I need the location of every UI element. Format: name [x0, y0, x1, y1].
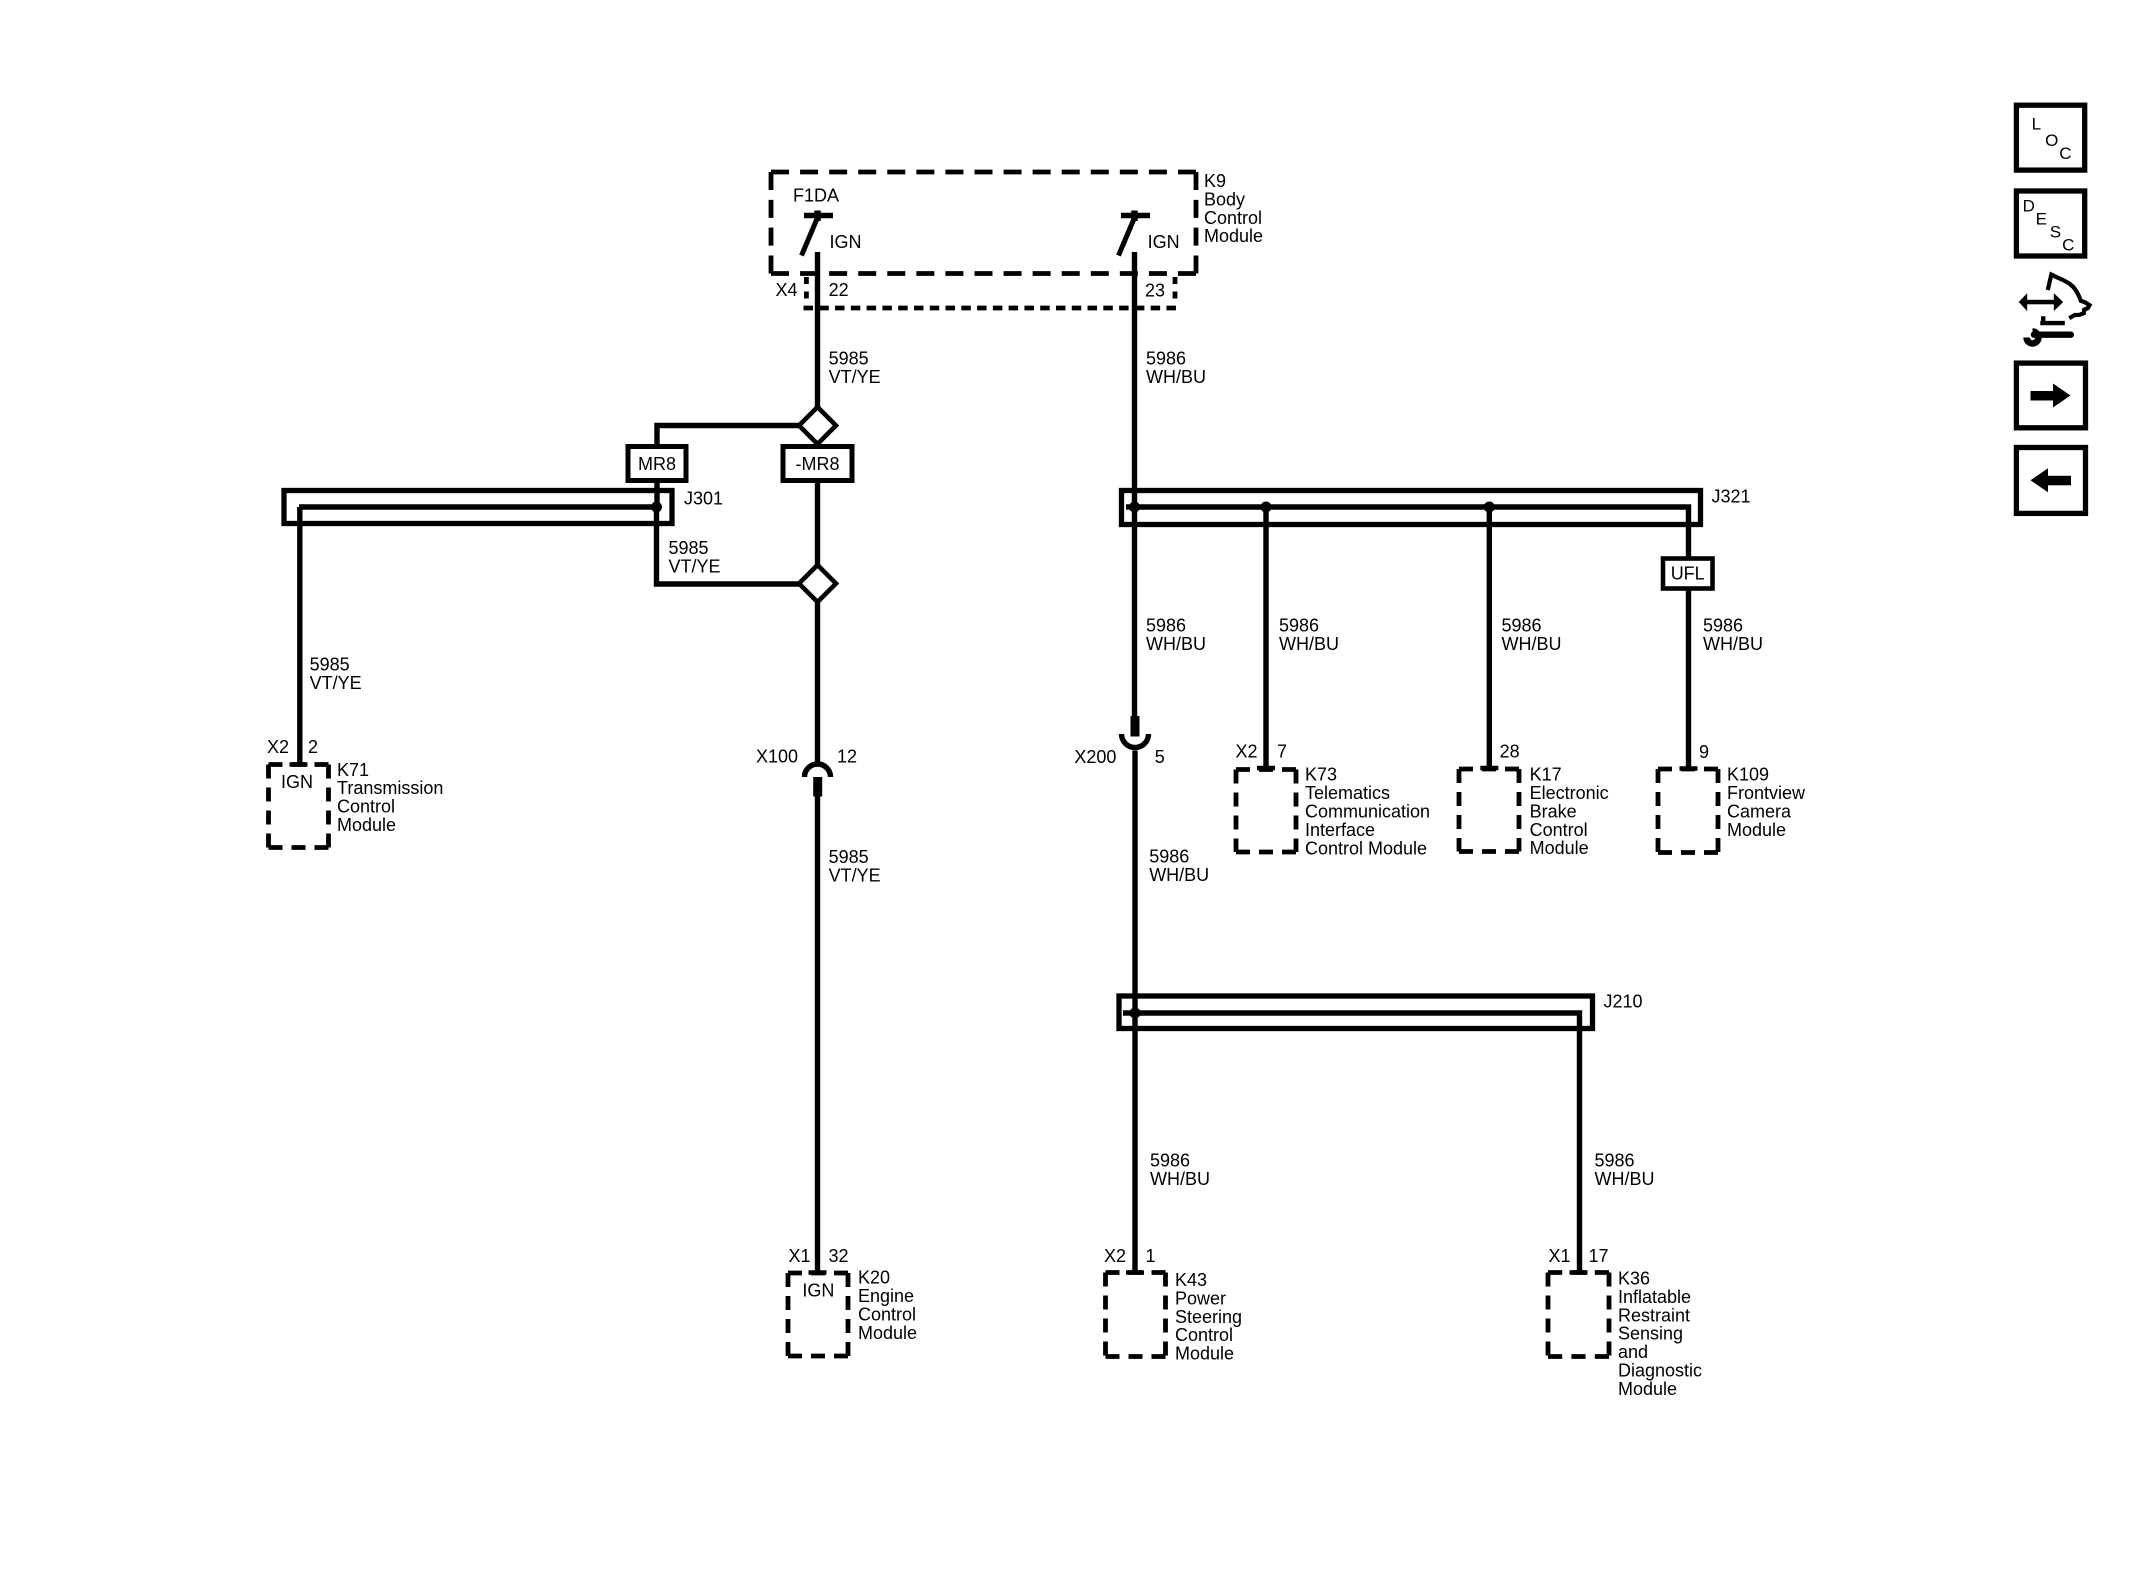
svg-text:Module: Module	[1727, 820, 1786, 840]
wire 5986 from J321 to X200	[1132, 507, 1137, 718]
svg-text:IGN: IGN	[281, 772, 313, 792]
svg-text:28: 28	[1500, 742, 1520, 762]
sidebar next-arrow glyph	[2031, 384, 2071, 408]
junction block J301 outer bar	[284, 491, 672, 524]
sidebar service icon: vehicle head outline	[2040, 275, 2089, 324]
svg-text:X1: X1	[788, 1246, 810, 1266]
svg-text:K17: K17	[1530, 765, 1562, 785]
wire from MR8 bottom into J301	[654, 479, 659, 507]
svg-text:K71: K71	[337, 760, 369, 780]
svg-text:Frontview: Frontview	[1727, 783, 1806, 803]
junction block J210 inner bus line with bend to K36	[1123, 1013, 1580, 1273]
svg-text:Power: Power	[1175, 1288, 1226, 1308]
svg-text:X2: X2	[1104, 1246, 1126, 1266]
svg-text:9: 9	[1699, 742, 1709, 762]
wire 5986 label (K17 branch)	[1502, 615, 1562, 653]
svg-text:X1: X1	[1548, 1246, 1570, 1266]
svg-text:VT/YE: VT/YE	[829, 367, 881, 387]
svg-text:Communication: Communication	[1305, 802, 1430, 822]
K109 module label text	[1727, 765, 1806, 840]
wire from upper diamond left to MR8	[657, 426, 801, 449]
wire 5986 branch to K17	[1487, 507, 1492, 769]
svg-text:WH/BU: WH/BU	[1146, 367, 1206, 387]
junction block J301 inner bus line	[299, 504, 660, 509]
svg-text:2: 2	[308, 737, 318, 757]
junction block J321 outer bar	[1122, 491, 1701, 525]
junction J321 dot (K17 branch)	[1484, 502, 1495, 513]
svg-text:IGN: IGN	[802, 1280, 834, 1300]
fuse IGN (right) symbol	[1119, 211, 1151, 256]
svg-text:WH/BU: WH/BU	[1703, 634, 1763, 654]
svg-text:Transmission: Transmission	[337, 778, 443, 798]
svg-text:IGN: IGN	[1148, 232, 1180, 252]
wire 5985 left drop from J301 to K71	[297, 507, 302, 765]
svg-text:IGN: IGN	[830, 232, 862, 252]
splice diamond (lower)	[799, 565, 836, 602]
svg-text:J301: J301	[684, 489, 723, 509]
svg-text:Module: Module	[1618, 1379, 1677, 1399]
K36 pin T-bar	[1570, 1270, 1588, 1275]
splice diamond (upper)	[799, 407, 836, 444]
module K9 Body Control Module dashed outline	[771, 172, 1196, 274]
svg-text:Control: Control	[1530, 820, 1588, 840]
wire 5985 label (left branch)	[310, 655, 362, 693]
K109 pin T-bar	[1680, 766, 1698, 771]
module K71 dashed box	[269, 765, 329, 848]
wire 5985 from X100 to K20	[815, 795, 820, 1273]
svg-text:WH/BU: WH/BU	[1150, 1169, 1210, 1189]
svg-text:Diagnostic: Diagnostic	[1618, 1361, 1702, 1381]
svg-text:K20: K20	[858, 1268, 890, 1288]
svg-text:17: 17	[1589, 1246, 1609, 1266]
junction J301 dot	[651, 502, 662, 513]
K71 pin T-bar	[290, 762, 308, 767]
wire 5986 from fuse IGN pin 23 down to J321	[1132, 252, 1137, 509]
svg-text:Restraint: Restraint	[1618, 1305, 1690, 1325]
svg-text:WH/BU: WH/BU	[1146, 634, 1206, 654]
sidebar service icon: double arrow	[2019, 293, 2064, 311]
svg-text:K73: K73	[1305, 765, 1337, 785]
svg-text:5986: 5986	[1146, 615, 1186, 635]
svg-text:VT/YE: VT/YE	[669, 557, 721, 577]
sidebar LOC button box	[2016, 105, 2084, 170]
fuse F1DA symbol	[802, 211, 834, 256]
K43 pin T-bar	[1126, 1270, 1144, 1275]
svg-text:WH/BU: WH/BU	[1502, 634, 1562, 654]
svg-text:5986: 5986	[1595, 1151, 1635, 1171]
svg-text:5: 5	[1155, 747, 1165, 767]
svg-text:O: O	[2045, 131, 2058, 150]
svg-text:Electronic: Electronic	[1530, 783, 1609, 803]
wire 5985 label below X100	[829, 847, 881, 885]
svg-text:7: 7	[1277, 742, 1287, 762]
jumper UFL box	[1663, 559, 1713, 589]
module K20 dashed box	[788, 1273, 848, 1356]
svg-text:WH/BU: WH/BU	[1595, 1169, 1655, 1189]
svg-text:X4: X4	[776, 280, 798, 300]
wire 5986 branch to K73	[1263, 507, 1268, 770]
svg-text:5986: 5986	[1146, 349, 1186, 369]
svg-text:K109: K109	[1727, 765, 1769, 785]
junction J210 dot	[1130, 1008, 1141, 1019]
jumper -MR8 box	[783, 447, 852, 481]
sidebar DESC button box	[2016, 191, 2084, 256]
svg-text:K43: K43	[1175, 1270, 1207, 1290]
sidebar next-arrow button box	[2016, 363, 2085, 428]
wire 5985 from fuse F1DA pin 22 down to splice diamond	[815, 252, 820, 408]
svg-text:VT/YE: VT/YE	[829, 865, 881, 885]
K73 pin T-bar	[1257, 766, 1275, 771]
svg-text:MR8: MR8	[638, 454, 676, 474]
svg-text:Module: Module	[1175, 1344, 1234, 1364]
svg-text:J210: J210	[1604, 992, 1643, 1012]
svg-text:Module: Module	[858, 1323, 917, 1343]
module K36 dashed box	[1548, 1273, 1609, 1357]
svg-text:E: E	[2036, 209, 2047, 228]
junction block J210 outer bar	[1119, 996, 1593, 1029]
wire 5986 label (UFL branch)	[1703, 615, 1763, 653]
sidebar back-arrow button box	[2016, 448, 2085, 514]
svg-text:C: C	[2059, 144, 2071, 163]
inline connector X100 socket arc	[805, 764, 831, 777]
module K43 dashed box	[1106, 1273, 1166, 1357]
svg-text:Module: Module	[1204, 226, 1263, 246]
svg-text:23: 23	[1145, 281, 1165, 301]
wire 5986 label below X200	[1149, 846, 1209, 885]
svg-text:Module: Module	[1530, 838, 1589, 858]
svg-text:X200: X200	[1074, 747, 1116, 767]
svg-text:L: L	[2032, 115, 2041, 134]
svg-text:12: 12	[837, 747, 857, 767]
wire from -MR8 bottom to lower diamond	[815, 479, 820, 567]
svg-text:5985: 5985	[669, 538, 709, 558]
wire 5986 label (K73 branch)	[1279, 615, 1339, 653]
svg-text:VT/YE: VT/YE	[310, 673, 362, 693]
svg-text:Control: Control	[1175, 1325, 1233, 1345]
wire from diamond1 bottom to -MR8	[815, 442, 820, 448]
wire 5985 label (top)	[829, 349, 881, 387]
svg-text:Control: Control	[858, 1305, 916, 1325]
wire 5986 label (top)	[1146, 349, 1206, 387]
svg-text:Body: Body	[1204, 189, 1245, 209]
wire 5986 from X200 to J210	[1132, 751, 1137, 1014]
K20 pin T-bar	[809, 1270, 827, 1275]
svg-text:Control: Control	[1204, 208, 1262, 228]
svg-text:Control: Control	[337, 797, 395, 817]
inline connector X200 pin	[1131, 716, 1140, 737]
svg-text:S: S	[2050, 222, 2061, 241]
svg-text:32: 32	[829, 1246, 849, 1266]
wire 5985 label below J301	[669, 538, 721, 576]
connector X4 pin row dashed box	[804, 277, 1177, 308]
module K73 dashed box	[1236, 770, 1296, 853]
jumper MR8 box	[628, 447, 686, 481]
K43 module label text	[1175, 1270, 1242, 1364]
junction J321 dot (main wire)	[1129, 502, 1140, 513]
svg-text:5986: 5986	[1150, 1151, 1190, 1171]
wire 5986 label (K43 branch)	[1150, 1151, 1210, 1190]
svg-text:5986: 5986	[1703, 615, 1743, 635]
K20 module label text	[858, 1268, 917, 1343]
svg-text:Module: Module	[337, 815, 396, 835]
svg-text:F1DA: F1DA	[793, 186, 839, 206]
sidebar back-arrow glyph	[2031, 468, 2072, 492]
svg-text:K9: K9	[1204, 171, 1226, 191]
svg-text:1: 1	[1146, 1246, 1156, 1266]
svg-text:Camera: Camera	[1727, 801, 1792, 821]
svg-text:Inflatable: Inflatable	[1618, 1287, 1691, 1307]
svg-text:K36: K36	[1618, 1269, 1650, 1289]
svg-text:5985: 5985	[829, 847, 869, 867]
K9 module label text	[1204, 171, 1263, 246]
svg-text:Control Module: Control Module	[1305, 838, 1427, 858]
svg-text:UFL: UFL	[1671, 564, 1705, 584]
sidebar DESC letters	[2023, 196, 2075, 254]
wire 5986 label (K36 branch)	[1595, 1151, 1655, 1190]
svg-text:5986: 5986	[1502, 615, 1542, 635]
svg-text:WH/BU: WH/BU	[1279, 634, 1339, 654]
wire 5986 from UFL to K109	[1686, 589, 1691, 770]
svg-text:Telematics: Telematics	[1305, 783, 1390, 803]
svg-text:X2: X2	[267, 737, 289, 757]
inline connector X100 pin	[813, 777, 822, 797]
svg-text:Brake: Brake	[1530, 801, 1577, 821]
wire 5986 from J210 to K43	[1132, 1013, 1137, 1273]
svg-text:X100: X100	[756, 747, 798, 767]
wire from J301 down and right to lower diamond	[657, 509, 802, 584]
module K17 dashed box	[1459, 769, 1519, 852]
svg-text:WH/BU: WH/BU	[1149, 865, 1209, 885]
sidebar service icon: wrench	[2027, 332, 2071, 344]
sidebar LOC letters	[2032, 115, 2072, 163]
svg-text:D: D	[2023, 196, 2035, 215]
svg-text:C: C	[2062, 235, 2074, 254]
svg-text:J321: J321	[1712, 487, 1751, 507]
K73 module label text	[1305, 765, 1430, 859]
svg-text:Interface: Interface	[1305, 820, 1375, 840]
junction J321 dot (K73 branch)	[1261, 502, 1272, 513]
K17 pin T-bar	[1480, 766, 1498, 771]
K36 module label text	[1618, 1269, 1702, 1399]
wire 5986 label (main below J321)	[1146, 615, 1206, 653]
inline connector X200 socket arc	[1122, 734, 1149, 748]
svg-text:5986: 5986	[1279, 615, 1319, 635]
svg-text:X2: X2	[1235, 742, 1257, 762]
svg-text:5985: 5985	[310, 655, 350, 675]
junction block J321 inner bus line with bend to UFL	[1126, 507, 1689, 558]
K71 module label text	[337, 760, 443, 835]
svg-text:Steering: Steering	[1175, 1307, 1242, 1327]
K17 module label text	[1530, 765, 1609, 859]
svg-text:Engine: Engine	[858, 1286, 914, 1306]
svg-text:-MR8: -MR8	[796, 454, 840, 474]
svg-text:Sensing: Sensing	[1618, 1324, 1683, 1344]
svg-text:5985: 5985	[829, 349, 869, 369]
svg-text:and: and	[1618, 1342, 1648, 1362]
svg-text:5986: 5986	[1149, 846, 1189, 866]
module K109 dashed box	[1658, 769, 1718, 853]
svg-text:22: 22	[829, 280, 849, 300]
wire from lower diamond bottom to X100	[815, 600, 820, 763]
